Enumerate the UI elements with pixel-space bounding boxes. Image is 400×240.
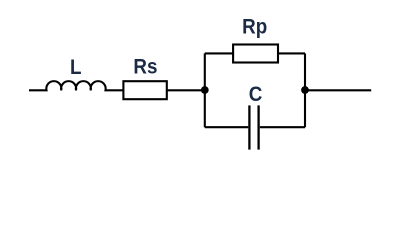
svg-text:L: L: [70, 56, 82, 79]
svg-text:C: C: [249, 83, 263, 106]
svg-text:Rs: Rs: [133, 55, 157, 78]
svg-text:Rp: Rp: [242, 15, 267, 38]
